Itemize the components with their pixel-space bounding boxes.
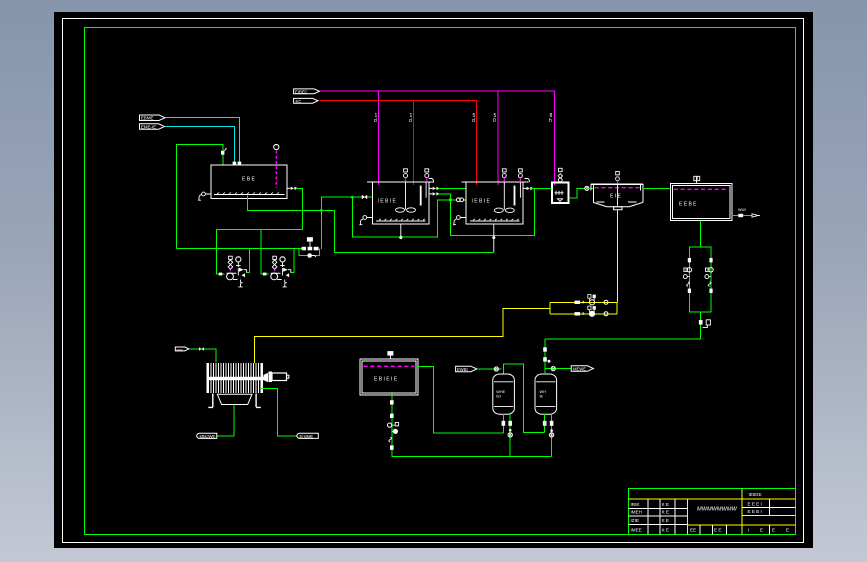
dosing box inner mixer glyph — [555, 191, 564, 195]
flag: production wastewater inlet — [140, 124, 165, 130]
regulating tank area — [140, 115, 494, 274]
reactor R2 lid sampling glyph — [525, 179, 530, 183]
svg-text:d: d — [472, 118, 475, 124]
reactor R1 baffle — [420, 186, 422, 206]
title block white verticals bottom row — [700, 525, 727, 535]
svg-text:E I E: E I E — [610, 194, 622, 200]
title block yellow top line — [629, 498, 796, 500]
level instrument bubble above tank T1 — [274, 144, 279, 149]
wire: cyan sewage line 2 — [165, 127, 235, 165]
flow meter box — [307, 237, 313, 241]
tank T1 regulating basin — [211, 165, 287, 199]
svg-text:E E B E: E E B E — [679, 202, 697, 208]
pump unit P1 — [219, 256, 247, 287]
reactor R2 drain stub — [493, 224, 495, 252]
flag: treated discharge — [297, 433, 318, 438]
flag: reuse water — [571, 366, 593, 372]
F2 feed valves — [543, 347, 547, 351]
svg-text:E: E — [786, 528, 789, 533]
sludge pump symbols bottom branch — [575, 312, 581, 315]
svg-text:ErsIME: ErsIME — [300, 434, 314, 439]
title block white column lines left section — [648, 499, 675, 535]
drain valve 2 — [390, 414, 394, 418]
reactor R2 aeration grid — [470, 220, 520, 222]
wire: yellow stub into R2 — [464, 199, 467, 201]
svg-text:E: E — [760, 528, 763, 533]
wire: pump1 discharge riser — [247, 249, 250, 273]
wire: tank bottom to reuse pump loop — [699, 221, 701, 248]
bypass globe valve — [307, 253, 312, 258]
svg-text:0: 0 — [493, 118, 496, 124]
svg-text:MMJWE: MMJWE — [200, 434, 216, 439]
chemical dosing feed lines — [294, 89, 555, 185]
reactor R2 lid — [461, 181, 528, 183]
reactor R1 pH sensor stack — [425, 169, 429, 172]
svg-text:It E: It E — [662, 502, 669, 507]
svg-text:EE: EE — [690, 528, 696, 533]
wire: discharge header — [177, 248, 303, 250]
clarifier instrument stack — [616, 172, 620, 175]
wire: reuse takeoff to flag — [545, 368, 571, 370]
filter vessels group — [456, 339, 594, 457]
wire: F1 top tee and crossover — [503, 364, 544, 432]
discharge valve — [738, 214, 743, 217]
wire: red dosing main — [318, 101, 476, 185]
dosing box group — [552, 168, 593, 203]
reactor R2 motor stack — [502, 169, 506, 172]
svg-text:E E E I: E E E I — [748, 502, 762, 507]
storage tank magenta level — [674, 188, 729, 190]
reactor R2 outlet nozzle — [523, 187, 526, 189]
wire: pump2 suction — [261, 230, 269, 274]
loop valves top — [688, 258, 691, 262]
reactor R1 motor stack — [404, 169, 408, 172]
wire: backwash supply to filter F1 — [477, 368, 501, 370]
cyan nozzle sockets on tank T1 — [233, 162, 237, 166]
loop check valves — [687, 282, 711, 287]
dosing line vertical labels — [374, 113, 553, 124]
svg-text:WH: WH — [540, 390, 547, 394]
sludge tank vent stem — [389, 356, 391, 359]
sludge pump symbols top branch — [575, 301, 581, 304]
wire: tank T1 bottom drain — [247, 196, 493, 253]
svg-text:IRIE: IRIE — [631, 502, 640, 507]
svg-text:EME-IE: EME-IE — [141, 125, 156, 130]
dosing box B1 — [552, 183, 569, 204]
svg-text:It E: It E — [662, 510, 669, 515]
dosing box instrument stack — [559, 168, 563, 171]
svg-text:It E: It E — [662, 518, 669, 523]
manifold valves — [302, 247, 306, 251]
svg-text:IMEH: IMEH — [631, 510, 642, 515]
filter press head plates — [208, 363, 263, 393]
loop valves bottom — [688, 289, 691, 293]
drain stub dots — [399, 236, 402, 239]
clarifier center pipe — [617, 184, 619, 206]
reactor R2 group — [399, 169, 552, 252]
inline aerator symbol — [585, 186, 589, 190]
reactor R1 lid sampling glyph — [429, 179, 434, 183]
reactor R1 drain stub — [400, 224, 402, 237]
flag: backwash water supply — [456, 366, 477, 372]
wire: pump1 suction — [217, 230, 225, 274]
svg-text:WHE: WHE — [496, 390, 505, 394]
clarifier C1 rim — [591, 183, 643, 185]
svg-text:E E: E E — [714, 528, 721, 533]
sludge tank magenta level — [364, 365, 415, 367]
wire: box outlet riser to clarifier — [569, 188, 585, 198]
wire: pump2 discharge riser — [291, 249, 294, 273]
flag: acid dosing — [294, 98, 318, 103]
tank T1 outlet nozzle and valve — [287, 187, 290, 189]
reactor R1 body — [372, 182, 429, 224]
title block outer green box — [629, 489, 796, 535]
F2 bottom stubs and valves — [544, 414, 546, 432]
sludge thickening tank group — [360, 351, 552, 457]
clarifier sludge cone — [593, 202, 643, 206]
svg-text:WWI: WWI — [738, 208, 746, 212]
svg-text:I E B I E: I E B I E — [378, 199, 397, 205]
wire: magenta branch to reactor R2 — [497, 91, 499, 185]
flag: sludge cake out — [197, 433, 217, 438]
sludge tank T3 double wall — [360, 359, 418, 395]
wire: yellow loop outlet to filter press — [254, 308, 550, 363]
flag: fresh water to press — [175, 347, 189, 351]
loop gauges — [683, 275, 687, 279]
F1 bottom stubs and valves — [502, 414, 504, 433]
svg-text:IZIE: IZIE — [631, 518, 639, 523]
filter press plate stack — [209, 363, 262, 393]
reactor R2 overflow elbow — [457, 216, 461, 220]
svg-text:E E B I: E E B I — [748, 509, 762, 514]
wire: green recirculation to tank1 inlet — [177, 145, 224, 249]
filter vessel F2 — [535, 374, 557, 414]
wire: R1 lower outlet to bottom loop — [438, 188, 535, 235]
svg-text:h: h — [549, 118, 552, 124]
drain pump circles — [388, 423, 392, 427]
storage tank T2 double wall — [671, 184, 733, 221]
reactor R1 dip tube — [425, 182, 427, 198]
title block yellow right mid line — [742, 515, 796, 517]
wire: overflow discharge line — [732, 215, 752, 217]
clarifier magenta level line — [595, 187, 641, 189]
wire: tank T1 outlet down to suction header — [217, 188, 303, 229]
reactor R1 inlet valve — [362, 195, 367, 199]
inline valve circle — [494, 367, 498, 371]
drain valve 1 — [390, 400, 394, 404]
junction dots on backwash drains — [509, 429, 512, 432]
wire: sludge tank side outlet — [418, 366, 504, 433]
reactor R1 group — [359, 169, 534, 237]
filter vessel F1 — [493, 374, 515, 414]
svg-text:E B I E I E: E B I E I E — [374, 377, 398, 383]
valve on tank1 inlet — [221, 151, 224, 155]
title block texts — [631, 492, 790, 533]
svg-text:IEIEIE: IEIEIE — [749, 492, 762, 497]
reactor R1 agitator shaft and impeller — [405, 181, 407, 210]
junction dots — [320, 209, 323, 212]
sludge pump loop group — [254, 295, 617, 363]
small inline valve — [199, 347, 204, 350]
reactor R2 pH sensor stack — [519, 169, 523, 172]
svg-text:d: d — [409, 118, 412, 124]
wire: manifold bypass — [299, 249, 320, 256]
wire: red branch to reactor R1 — [413, 101, 415, 185]
svg-text:EBME: EBME — [141, 116, 154, 121]
wire: magenta dosing main — [320, 91, 555, 185]
discharge arrow — [752, 214, 760, 217]
svg-text:I: I — [748, 528, 749, 533]
title block white lines right section — [742, 499, 796, 535]
pump unit P2 — [263, 256, 291, 287]
svg-text:I E B I E: I E B I E — [472, 199, 491, 205]
svg-text:MWMWMWMW: MWMWMWMW — [697, 507, 737, 513]
wire: cyan sewage line 1 — [166, 118, 240, 165]
wire: magenta branch to reactor R1 — [378, 91, 380, 185]
svg-text:EC: EC — [296, 99, 302, 104]
tank T1 aeration ticks — [217, 192, 279, 194]
white outer border frame — [63, 19, 804, 543]
svg-text:EIBEC: EIBEC — [295, 89, 308, 94]
svg-text:E B E: E B E — [242, 177, 255, 183]
flag: PAM dosing — [294, 89, 320, 94]
svg-text:MEWE: MEWE — [573, 367, 586, 372]
filter press legs — [208, 394, 261, 408]
wire: F2 top feed — [544, 339, 546, 374]
clean water storage tank group — [671, 176, 760, 247]
magenta dashed level probe in tank T1 — [275, 151, 277, 188]
title block — [629, 489, 796, 535]
reactor R2 baffle — [514, 186, 516, 206]
drain valve 3 — [390, 445, 394, 449]
svg-text:EWBI: EWBI — [457, 367, 468, 372]
reactor R1 overflow elbow — [363, 216, 367, 220]
tank T1 aeration pipe — [214, 194, 285, 196]
wire: filtrate discharge — [262, 389, 297, 436]
reactor R2 inlet dosing pump — [456, 198, 460, 202]
tank T1 overflow elbow bottom-left — [202, 192, 206, 196]
filter press group — [175, 347, 318, 439]
wire: cake discharge — [217, 405, 234, 436]
storage tank vent stem — [696, 181, 698, 184]
reactor R1 outlet nozzles — [429, 188, 432, 194]
loop pumps — [687, 268, 691, 272]
title block yellow bottom-row line — [688, 524, 796, 526]
wire: manifold outlet riser to reactor feed — [321, 197, 364, 249]
filter press hopper — [217, 394, 252, 404]
svg-text:EIE: EIE — [177, 347, 184, 352]
flag: domestic sewage inlet — [140, 115, 166, 121]
drain check valve — [389, 437, 392, 442]
filter press ram and cylinder — [264, 373, 269, 383]
reactor R2 agitator shaft and impeller — [503, 181, 505, 210]
svg-text:E: E — [772, 528, 775, 533]
reactor R2 dip tube — [519, 182, 521, 198]
svg-text:It E: It E — [662, 528, 669, 533]
svg-text:IMEE: IMEE — [631, 528, 642, 533]
wire: reuse pump loop — [689, 247, 711, 312]
filter press main beam — [207, 377, 264, 380]
wire: clarifier outlet to storage tank — [643, 187, 670, 189]
title block yellow vertical dividers — [688, 489, 743, 535]
wire: yellow sludge pump loop — [550, 302, 617, 314]
reactor R1 aeration grid — [376, 220, 426, 222]
green inner border frame — [85, 28, 796, 535]
svg-text:IE: IE — [540, 394, 544, 398]
svg-text:d: d — [374, 118, 377, 124]
wire: R2 outlet to dosing box — [532, 187, 553, 189]
wire: sludge tank bottom drain with pump train — [392, 393, 552, 456]
reuse flow meter — [699, 320, 703, 325]
reuse water pump loop group — [545, 247, 713, 339]
wire: yellow sludge drop line — [617, 210, 619, 302]
clarifier group — [591, 172, 670, 303]
flow meter manifold — [299, 196, 457, 258]
wire: R1 outlet to R2 — [438, 187, 466, 189]
wire: loop outlet down — [545, 312, 701, 339]
wire: reactor feed branch down — [352, 197, 457, 237]
wire: wash water to press — [190, 349, 217, 363]
title block white row lines left section — [629, 509, 688, 525]
reactor R1 lid — [367, 181, 434, 183]
svg-text:IEI: IEI — [496, 394, 501, 398]
reactor R2 body — [466, 182, 523, 224]
